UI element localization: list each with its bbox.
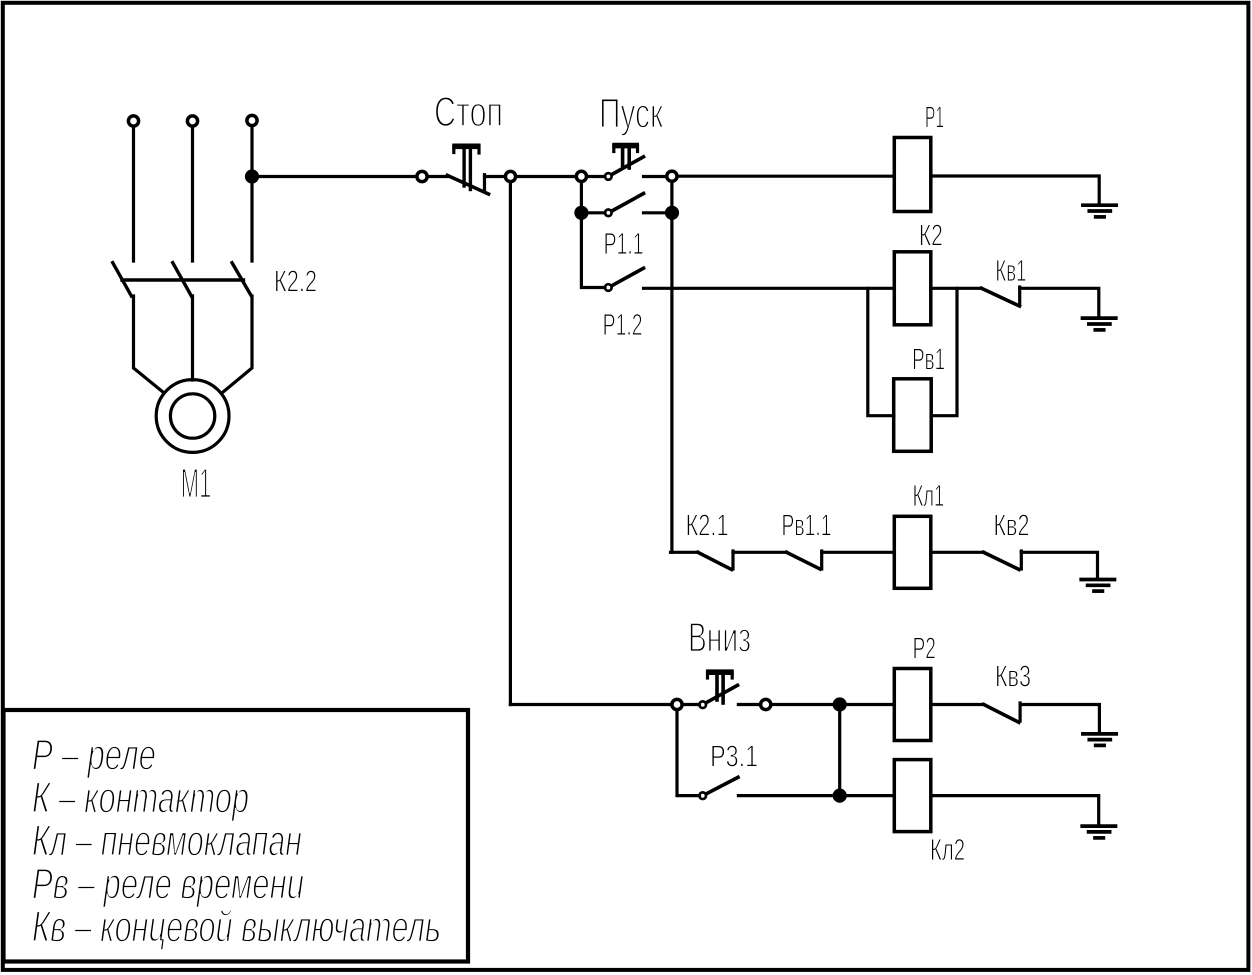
contact Kv3 (NC) <box>984 705 1019 723</box>
wire <box>931 287 982 290</box>
svg-text:Кл1: Кл1 <box>913 478 945 513</box>
svg-text:Кв1: Кв1 <box>995 253 1026 288</box>
wire <box>485 175 504 178</box>
wire <box>677 710 700 796</box>
stop right hook <box>483 175 486 190</box>
svg-text:К2.1: К2.1 <box>686 508 729 543</box>
svg-text:Кв – концевой выключатель: Кв – концевой выключатель <box>32 903 441 952</box>
wire phase B lower <box>191 296 194 380</box>
contact Kv2 (NC) <box>984 552 1020 569</box>
contact Rv1.1 (NC) <box>787 552 820 569</box>
svg-text:К2: К2 <box>919 218 943 253</box>
wire phase A lower <box>134 296 164 393</box>
svg-text:Р – реле: Р – реле <box>32 730 156 779</box>
terminal L1 <box>128 116 138 126</box>
wire rail to Vniz row <box>509 183 512 705</box>
p11 blade <box>612 194 644 212</box>
wire <box>733 551 787 554</box>
terminal L2 <box>187 116 197 126</box>
svg-text:Кл2: Кл2 <box>930 832 965 867</box>
relay coil K2 <box>894 252 931 325</box>
vniz pivot <box>699 701 706 708</box>
svg-text:Кл – пневмоклапан: Кл – пневмоклапан <box>32 817 302 866</box>
relay coil Rv1 <box>894 379 932 452</box>
node stop left terminal <box>417 171 427 181</box>
wire phase C upper <box>250 127 253 261</box>
wire K2 row <box>644 287 895 290</box>
wire <box>580 183 583 213</box>
wire <box>822 551 895 554</box>
stop blade <box>447 175 488 194</box>
p12 pivot <box>605 284 612 291</box>
legend box <box>4 710 469 962</box>
svg-text:Кв2: Кв2 <box>994 508 1030 543</box>
ground P1 row <box>1083 205 1116 217</box>
wire <box>510 703 670 706</box>
svg-text:Кв3: Кв3 <box>995 658 1031 693</box>
svg-text:Рв1: Рв1 <box>912 342 945 377</box>
contactor contact K2.2 <box>113 263 252 296</box>
wire <box>772 703 895 706</box>
wire <box>1020 705 1099 733</box>
pusk plunger <box>612 143 639 149</box>
p31 blade <box>706 777 738 794</box>
stop plunger <box>452 144 480 150</box>
wire <box>683 703 699 706</box>
motor M1 <box>156 380 229 453</box>
wire Rv1 branch right <box>931 288 957 415</box>
wire right rail down to Kl1 row <box>670 181 673 552</box>
valve coil Kl1 <box>894 516 931 588</box>
wire main bus <box>252 175 416 178</box>
p31 pivot <box>699 792 706 799</box>
wire <box>931 796 1099 825</box>
pusk blade <box>612 157 644 175</box>
node <box>834 790 845 801</box>
node vniz right terminal <box>761 699 771 709</box>
node vniz left terminal <box>672 699 682 709</box>
wire <box>738 794 894 797</box>
p11 pivot <box>605 210 612 217</box>
wire Rv1 branch left <box>868 288 894 415</box>
vniz blade <box>706 685 737 702</box>
relay coil P2 <box>894 669 931 741</box>
wire P1 row <box>678 175 895 178</box>
ground Kl2 row <box>1082 826 1115 838</box>
valve coil Kl2 <box>894 760 931 832</box>
wire <box>581 213 605 288</box>
svg-text:Рв1.1: Рв1.1 <box>782 508 832 543</box>
ground Kl1 row <box>1081 580 1114 592</box>
contact Kv1 (NC) <box>981 288 1019 306</box>
svg-text:Р2: Р2 <box>913 631 936 666</box>
svg-text:Р1.1: Р1.1 <box>604 226 644 261</box>
wire <box>517 175 577 178</box>
wire <box>1021 552 1097 577</box>
contact K2.1 (NC) <box>698 552 732 569</box>
wire <box>931 176 1099 203</box>
wire <box>429 175 448 178</box>
node pusk left junction <box>576 171 586 181</box>
wire <box>644 175 666 178</box>
terminal L3 <box>247 115 257 125</box>
svg-text:Р1: Р1 <box>925 99 944 134</box>
node main junction <box>247 171 258 182</box>
wire <box>1020 288 1099 316</box>
svg-text:М1: М1 <box>181 460 212 507</box>
wire <box>586 211 605 214</box>
svg-text:Пуск: Пуск <box>599 90 663 137</box>
wire phase B upper <box>191 128 194 261</box>
p12 blade <box>612 268 644 286</box>
svg-text:К – контактор: К – контактор <box>32 773 249 822</box>
svg-text:Вниз: Вниз <box>688 614 751 661</box>
svg-text:Р1.2: Р1.2 <box>603 307 643 342</box>
ground Kv3 row <box>1083 734 1116 746</box>
node <box>576 207 587 218</box>
svg-text:Стоп: Стоп <box>434 88 503 135</box>
wire <box>738 703 760 706</box>
wire <box>931 551 984 554</box>
wire phase A upper <box>132 128 135 261</box>
wire <box>588 175 606 178</box>
wire <box>838 705 841 796</box>
relay coil P1 <box>894 138 931 212</box>
node stop right terminal <box>505 171 515 181</box>
vniz plunger <box>706 669 734 675</box>
pusk pivot <box>605 173 612 180</box>
node <box>667 207 678 218</box>
svg-text:Р3.1: Р3.1 <box>710 739 758 774</box>
node <box>834 699 845 710</box>
wire <box>671 551 698 554</box>
svg-text:К2.2: К2.2 <box>274 264 317 299</box>
ground K2 row <box>1083 318 1116 330</box>
svg-text:Рв – реле времени: Рв – реле времени <box>32 860 304 909</box>
wire <box>931 703 984 706</box>
wire phase C lower <box>223 296 253 393</box>
node pusk right junction <box>667 171 677 181</box>
wire <box>644 211 673 214</box>
